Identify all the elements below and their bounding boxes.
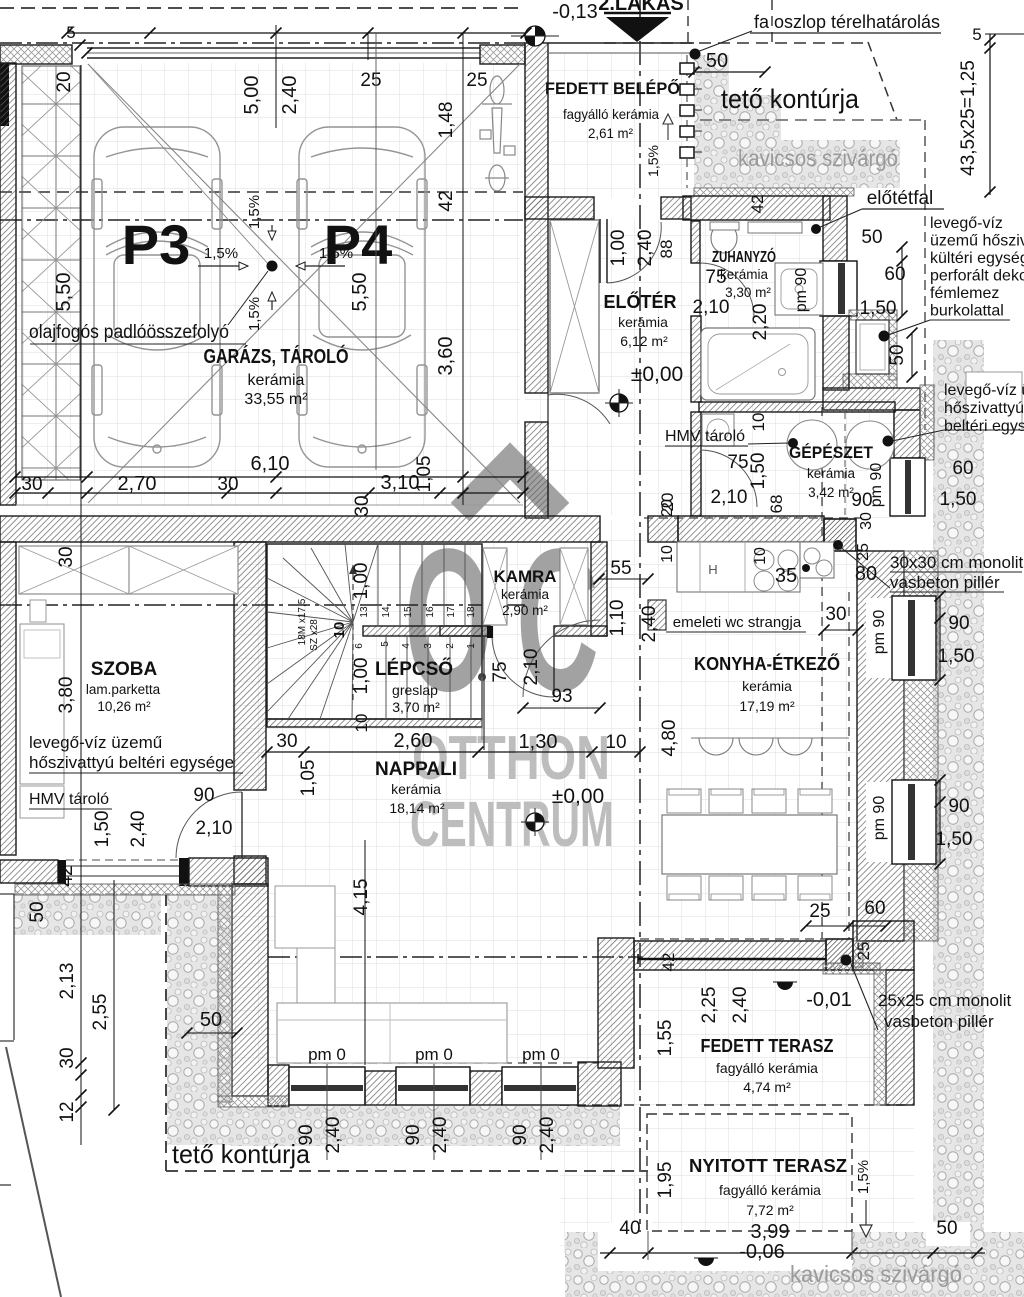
south glass wall: corner+piers+windows [268, 1065, 289, 1106]
svg-text:60: 60 [952, 458, 973, 479]
beam edge above terrace [638, 958, 826, 961]
svg-text:-0,13: -0,13 [552, 1, 598, 23]
belepo roof edge lines [548, 42, 694, 44]
svg-text:1,50: 1,50 [748, 453, 769, 490]
svg-text:hőszivattyú beltéri egysége: hőszivattyú beltéri egysége [29, 753, 234, 772]
svg-text:50: 50 [200, 1009, 222, 1031]
svg-text:50: 50 [706, 50, 728, 72]
garage-eloter door arc [548, 394, 610, 424]
svg-text:6,10: 6,10 [251, 453, 290, 475]
svg-text:1,5%: 1,5% [645, 145, 661, 177]
svg-text:14: 14 [381, 606, 392, 618]
level marker nappali [526, 813, 544, 831]
upper floor dashed contours [821, 407, 823, 939]
svg-text:1,95: 1,95 [655, 1162, 676, 1199]
svg-text:1,00: 1,00 [608, 230, 629, 267]
svg-text:fagyálló kerámia: fagyálló kerámia [563, 106, 659, 122]
svg-text:25: 25 [854, 942, 873, 961]
svg-text:KONYHA-ÉTKEZŐ: KONYHA-ÉTKEZŐ [694, 653, 840, 674]
stairs room [267, 544, 482, 719]
svg-text:kerámia: kerámia [391, 781, 441, 797]
svg-text:30: 30 [825, 604, 846, 625]
szoba/stairs divider wall [234, 542, 266, 790]
svg-text:3,42 m²: 3,42 m² [808, 485, 854, 500]
svg-text:33,55 m²: 33,55 m² [244, 391, 308, 408]
svg-text:KAMRA: KAMRA [494, 567, 557, 586]
svg-text:50: 50 [887, 344, 908, 365]
svg-text:90: 90 [948, 613, 969, 634]
szoba south window opening [66, 865, 179, 867]
window S3 [502, 1067, 578, 1105]
svg-text:3,70 m²: 3,70 m² [392, 699, 440, 715]
kamra walls [591, 542, 607, 636]
hob [754, 550, 774, 570]
walk line [352, 565, 354, 700]
garage west wall [0, 63, 16, 505]
svg-text:88: 88 [657, 240, 676, 259]
gepeszet door arc [700, 450, 757, 507]
svg-text:ZUHANYZÓ: ZUHANYZÓ [712, 247, 776, 266]
svg-text:25: 25 [360, 70, 381, 91]
corridor edge line [483, 636, 485, 750]
zuhanyzo west wall pieces + door [691, 221, 700, 263]
svg-text:lam.parketta: lam.parketta [86, 682, 161, 697]
watermark OC Otthon Centrum [460, 461, 560, 512]
svg-text:H: H [708, 562, 717, 577]
lower flight treads [385, 636, 387, 719]
svg-text:levegő-víz: levegő-víz [930, 215, 1003, 232]
svg-text:kültéri egysége: kültéri egysége [930, 250, 1024, 267]
kitchen north wall + 30x30 pillar [678, 516, 824, 542]
svg-text:75: 75 [727, 452, 748, 473]
nappali SE jog wall [598, 938, 634, 1068]
svg-text:pm 0: pm 0 [308, 1045, 346, 1064]
svg-text:fa oszlop térelhatárolás: fa oszlop térelhatárolás [754, 12, 940, 32]
svg-text:25: 25 [855, 543, 872, 561]
svg-text:5,00: 5,00 [241, 76, 263, 115]
svg-text:1,50: 1,50 [938, 646, 975, 667]
kitchen east window 2 [892, 780, 936, 864]
svg-text:pm 90: pm 90 [871, 796, 888, 841]
svg-text:4,74 m²: 4,74 m² [743, 1079, 791, 1095]
szoba south wall [0, 860, 58, 883]
svg-text:pm 90: pm 90 [868, 463, 885, 508]
level marker top (belepo) [525, 26, 545, 46]
garage NE wall block [480, 45, 525, 64]
nyitott terasz dashed outline [647, 1114, 852, 1231]
bed [20, 624, 64, 784]
szoba west wall [0, 542, 16, 855]
svg-text:1,50: 1,50 [936, 829, 973, 850]
svg-text:±0,00: ±0,00 [631, 363, 683, 386]
svg-text:4: 4 [401, 643, 412, 649]
svg-text:2.LAKÁS: 2.LAKÁS [598, 0, 684, 15]
svg-text:7,72 m²: 7,72 m² [746, 1202, 794, 1218]
stairs south wall [267, 719, 482, 727]
window S1 [289, 1067, 365, 1105]
svg-text:68: 68 [767, 495, 786, 514]
svg-text:2,10: 2,10 [711, 487, 748, 508]
gepeszet east window [890, 458, 925, 516]
stairs mid landing wall [363, 626, 482, 636]
svg-text:42: 42 [659, 953, 678, 972]
svg-text:90: 90 [403, 1124, 424, 1145]
svg-text:P3: P3 [122, 213, 191, 276]
elotetfal wall [823, 196, 847, 261]
boundary diagonal SW [6, 1047, 61, 1297]
kitchen east window 1 [892, 596, 936, 680]
svg-text:75: 75 [490, 661, 511, 682]
svg-text:17,19 m²: 17,19 m² [739, 698, 795, 714]
svg-text:2,70: 2,70 [118, 473, 157, 495]
svg-text:80: 80 [855, 563, 877, 585]
section lines [0, 219, 523, 221]
svg-text:hőszivattyú: hőszivattyú [944, 400, 1024, 417]
svg-text:6,12 m²: 6,12 m² [620, 333, 668, 349]
svg-text:17: 17 [446, 606, 457, 618]
svg-text:5: 5 [66, 23, 75, 42]
svg-text:emeleti wc strangja: emeleti wc strangja [673, 614, 802, 631]
svg-text:2,40: 2,40 [730, 987, 751, 1024]
svg-text:fagyálló kerámia: fagyálló kerámia [716, 1060, 818, 1076]
wooden posts (fa oszlop) [686, 55, 688, 188]
floor tile grid [15, 63, 520, 506]
upper flight treads [377, 544, 379, 626]
shower tray [775, 263, 823, 315]
svg-text:GÉPÉSZET: GÉPÉSZET [789, 443, 874, 462]
leader olajfogos [228, 271, 268, 325]
svg-text:2,25: 2,25 [699, 987, 720, 1024]
svg-text:FEDETT TERASZ: FEDETT TERASZ [701, 1036, 834, 1056]
level marker elotér [610, 394, 628, 412]
SE corner wall above terrace [853, 921, 914, 970]
svg-text:üzemű hősziva.: üzemű hősziva. [930, 233, 1024, 250]
svg-text:-0,06: -0,06 [739, 1241, 785, 1263]
svg-text:30x30 cm monolit: 30x30 cm monolit [890, 553, 1024, 572]
gravel drain areas (kavicsos szivargo) [694, 55, 900, 188]
svg-text:1,5%: 1,5% [246, 195, 263, 229]
sink [800, 542, 834, 578]
bathtub [701, 328, 815, 400]
svg-text:1,00: 1,00 [351, 563, 372, 600]
svg-text:tető kontúrja: tető kontúrja [721, 84, 860, 114]
svg-text:NAPPALI: NAPPALI [375, 759, 457, 780]
svg-text:10,26 m²: 10,26 m² [97, 699, 151, 714]
svg-text:2,10: 2,10 [521, 649, 542, 686]
svg-text:1,48: 1,48 [436, 102, 457, 139]
svg-text:1: 1 [466, 643, 477, 649]
svg-text:55: 55 [610, 558, 631, 579]
shelf [748, 222, 802, 233]
svg-text:3,80: 3,80 [56, 677, 77, 714]
svg-text:pm 90: pm 90 [871, 610, 888, 655]
entry west wall [525, 43, 548, 393]
svg-text:kerámia: kerámia [807, 466, 856, 481]
svg-text:SZ x28: SZ x28 [309, 619, 320, 651]
svg-text:kerámia: kerámia [501, 587, 550, 602]
svg-text:FEDETT BELÉPŐ: FEDETT BELÉPŐ [545, 79, 680, 98]
svg-text:10: 10 [752, 547, 769, 565]
svg-text:fémlemez: fémlemez [930, 285, 999, 302]
svg-text:2,55: 2,55 [90, 994, 111, 1031]
svg-text:2,20: 2,20 [750, 304, 771, 341]
dim left garage [80, 65, 82, 1145]
winder fan [353, 544, 378, 622]
svg-text:50: 50 [27, 901, 48, 922]
kamra door arc [492, 636, 554, 697]
svg-text:12: 12 [57, 1101, 78, 1122]
svg-text:13: 13 [359, 606, 370, 618]
garage cross diagonals [88, 64, 520, 503]
svg-text:18,14 m²: 18,14 m² [389, 800, 445, 816]
svg-text:2,40: 2,40 [537, 1117, 558, 1154]
svg-text:3: 3 [423, 643, 434, 649]
chairs [667, 789, 701, 813]
svg-text:előtétfal: előtétfal [867, 188, 934, 209]
svg-text:fagyálló kerámia: fagyálló kerámia [719, 1182, 821, 1198]
svg-text:10: 10 [352, 714, 371, 733]
svg-text:2,61 m²: 2,61 m² [588, 125, 633, 141]
svg-text:20: 20 [659, 499, 676, 517]
svg-text:10: 10 [331, 622, 348, 639]
svg-text:kerámia: kerámia [248, 372, 305, 389]
svg-text:NYITOTT TERASZ: NYITOTT TERASZ [689, 1156, 847, 1176]
roof contour dashed [0, 7, 522, 9]
svg-text:tető kontúrja: tető kontúrja [172, 1139, 311, 1169]
svg-text:42: 42 [436, 190, 457, 211]
svg-text:ELŐTÉR: ELŐTÉR [603, 291, 676, 312]
svg-text:1,5%: 1,5% [246, 297, 263, 331]
svg-text:3,10: 3,10 [381, 472, 420, 494]
svg-text:1,5%: 1,5% [204, 245, 238, 262]
svg-text:2,40: 2,40 [279, 76, 301, 115]
svg-text:2,40: 2,40 [430, 1117, 451, 1154]
wardrobe with X [550, 220, 599, 393]
svg-text:1,05: 1,05 [298, 760, 319, 797]
-0,06 half marker [694, 1258, 718, 1266]
svg-text:SZOBA: SZOBA [91, 659, 158, 680]
wc strang box [648, 600, 666, 630]
szoba door arc [176, 792, 242, 858]
svg-text:90: 90 [510, 1124, 531, 1145]
svg-text:10: 10 [659, 545, 676, 563]
svg-text:10: 10 [749, 413, 768, 432]
svg-text:60: 60 [864, 898, 885, 919]
svg-text:18: 18 [466, 606, 477, 618]
svg-text:perforált dekor: perforált dekor [930, 268, 1024, 285]
svg-text:olajfogós padlóösszefolyó: olajfogós padlóösszefolyó [29, 322, 229, 343]
nappali west wall [232, 884, 268, 1096]
svg-text:HMV tároló: HMV tároló [29, 791, 109, 808]
svg-text:beltéri egys.: beltéri egys. [944, 418, 1024, 435]
svg-text:50: 50 [936, 1218, 957, 1239]
svg-text:±0,00: ±0,00 [552, 785, 604, 808]
svg-text:2,10: 2,10 [196, 818, 233, 839]
svg-text:2,40: 2,40 [635, 230, 656, 267]
svg-text:35: 35 [775, 565, 797, 587]
svg-text:20: 20 [54, 71, 75, 92]
floor drain center dot + slope arrows [267, 261, 278, 272]
bath/gepeszet divider wall [699, 402, 895, 412]
slope arrow nyitott [865, 1200, 867, 1230]
svg-text:2: 2 [445, 643, 456, 649]
sofa [277, 1003, 507, 1063]
svg-text:pm 0: pm 0 [522, 1045, 560, 1064]
svg-text:5: 5 [972, 25, 981, 44]
dim 50 posts [694, 71, 765, 73]
svg-text:90: 90 [193, 785, 214, 806]
svg-text:1,50: 1,50 [92, 811, 113, 848]
svg-text:2,60: 2,60 [394, 730, 433, 752]
svg-text:kerámia: kerámia [618, 314, 668, 330]
belepo south wall + front door opening [525, 197, 594, 219]
svg-text:2,13: 2,13 [57, 963, 78, 1000]
svg-text:5,50: 5,50 [349, 273, 371, 312]
car P3 [92, 127, 222, 467]
svg-text:90: 90 [948, 796, 969, 817]
svg-text:3,60: 3,60 [435, 337, 457, 376]
svg-text:90: 90 [296, 1124, 317, 1145]
svg-text:4,80: 4,80 [659, 720, 680, 757]
tv cabinet [275, 886, 335, 948]
dim right top [989, 34, 991, 195]
kitchen south wall + pillar [634, 941, 826, 970]
svg-text:16: 16 [425, 606, 436, 618]
svg-text:burkolattal: burkolattal [930, 303, 1004, 320]
dim top garage [67, 32, 526, 34]
svg-text:2,40: 2,40 [639, 606, 660, 643]
svg-text:43,5x25=1,25: 43,5x25=1,25 [958, 60, 979, 176]
dims nappali [267, 751, 640, 753]
svg-text:1,10: 1,10 [607, 600, 628, 637]
car P4 [297, 127, 427, 467]
garage door edge (triple line) [87, 47, 480, 49]
svg-text:75: 75 [705, 267, 726, 288]
dining table [662, 815, 837, 874]
dim bottom garage [15, 476, 523, 478]
svg-text:30: 30 [217, 474, 238, 495]
svg-text:30: 30 [276, 731, 297, 752]
2.LAKAS triangle [606, 17, 669, 42]
black corner bar [0, 64, 9, 126]
szoba wardrobes [19, 546, 129, 594]
svg-text:1,50: 1,50 [860, 298, 897, 319]
svg-text:kerámia: kerámia [720, 267, 769, 282]
svg-text:GARÁZS, TÁROLÓ: GARÁZS, TÁROLÓ [204, 344, 349, 368]
gepeszet west wall [691, 412, 701, 516]
svg-text:kavicsos szivárgó: kavicsos szivárgó [790, 1261, 962, 1287]
svg-text:10: 10 [605, 732, 626, 753]
svg-text:18M x17,5: 18M x17,5 [297, 598, 308, 645]
SE wall complex around recess [849, 310, 897, 320]
svg-text:1,5%: 1,5% [855, 1160, 872, 1194]
svg-text:6: 6 [354, 643, 365, 649]
svg-text:30: 30 [858, 512, 875, 530]
motorcycle symbol [480, 76, 515, 191]
garage/szoba long south wall [0, 516, 600, 542]
svg-text:greslap: greslap [392, 682, 438, 698]
front door leaf+arc [599, 219, 601, 283]
svg-text:pm 0: pm 0 [415, 1045, 453, 1064]
svg-text:50: 50 [861, 227, 882, 248]
corridor door arc to konyha [523, 620, 600, 697]
lattice column (carport west) [22, 66, 80, 480]
svg-text:levegő-víz ü.: levegő-víz ü. [944, 382, 1024, 399]
svg-text:levegő-víz üzemű: levegő-víz üzemű [29, 733, 162, 752]
garage north wall w/ insulation [0, 45, 72, 64]
svg-text:15: 15 [403, 606, 414, 618]
svg-text:42: 42 [56, 865, 77, 886]
zuhanyzo door arc [700, 263, 754, 317]
svg-text:3,30 m²: 3,30 m² [725, 285, 771, 300]
svg-text:1,5%: 1,5% [319, 245, 353, 262]
svg-text:kerámia: kerámia [742, 678, 792, 694]
zuhanyzo window east [820, 261, 857, 316]
svg-text:25: 25 [809, 901, 830, 922]
window S2 [396, 1067, 470, 1105]
svg-text:3,99: 3,99 [751, 1221, 790, 1243]
svg-text:30: 30 [21, 474, 42, 495]
svg-text:25x25 cm monolit: 25x25 cm monolit [878, 991, 1012, 1010]
svg-text:HMV tároló: HMV tároló [665, 428, 745, 445]
svg-text:LÉPCSŐ: LÉPCSŐ [375, 658, 453, 680]
svg-text:1,50: 1,50 [940, 489, 977, 510]
svg-text:2,10: 2,10 [693, 297, 730, 318]
svg-text:30: 30 [56, 546, 77, 567]
svg-text:93: 93 [551, 686, 572, 707]
svg-text:1,00: 1,00 [351, 658, 372, 695]
terrace east wall [886, 970, 914, 1105]
svg-text:40: 40 [619, 1218, 640, 1239]
svg-text:5,50: 5,50 [53, 273, 75, 312]
zuhanyzo north wall + insulation [694, 188, 854, 196]
svg-text:1,55: 1,55 [655, 1020, 676, 1057]
svg-text:2,40: 2,40 [323, 1117, 344, 1154]
svg-text:2,40: 2,40 [128, 811, 149, 848]
svg-text:vasbeton pillér: vasbeton pillér [890, 573, 1000, 592]
gepeszet tanks [787, 420, 837, 470]
kamra shelves [483, 548, 507, 625]
svg-text:42: 42 [748, 195, 767, 214]
svg-text:30: 30 [57, 1047, 78, 1068]
-0,01 half marker [773, 982, 797, 990]
svg-text:vasbeton pillér: vasbeton pillér [884, 1012, 994, 1031]
kitchen counter [677, 542, 800, 592]
svg-text:-0,01: -0,01 [806, 989, 852, 1011]
zuhanyzo sink [711, 223, 737, 253]
svg-text:pm 90: pm 90 [793, 268, 810, 313]
svg-text:30: 30 [352, 495, 373, 516]
svg-text:kavicsos szivárgó: kavicsos szivárgó [738, 145, 898, 171]
svg-text:2,90 m²: 2,90 m² [502, 603, 548, 618]
pillar 30x30 [824, 519, 856, 551]
east exterior wall (kitchen) [857, 551, 904, 941]
svg-text:25: 25 [466, 70, 487, 91]
svg-text:1,30: 1,30 [519, 731, 558, 753]
bar chairs [691, 737, 849, 739]
svg-text:4,15: 4,15 [351, 879, 372, 916]
dims bottom-left col [80, 1108, 82, 1145]
svg-text:5: 5 [380, 641, 391, 647]
